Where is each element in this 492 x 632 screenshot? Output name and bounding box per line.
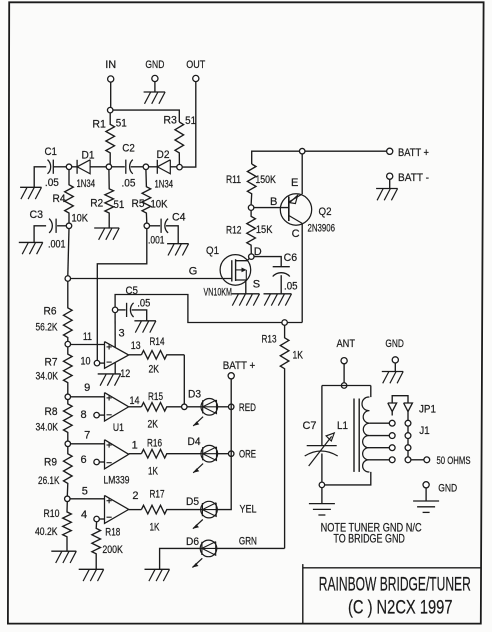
node junction G tap: [65, 276, 71, 282]
value 2N3906 of Q2: [308, 223, 336, 235]
node junction C1-D1: [66, 164, 72, 170]
label BATT+ mid: [223, 360, 256, 372]
label C4: [172, 212, 186, 224]
node junction R4-C3: [66, 223, 72, 229]
wire pin6 input: [99, 461, 104, 463]
label pin 2: [132, 490, 138, 502]
node junction pin9: [65, 394, 71, 400]
svg-text:1K: 1K: [148, 466, 158, 478]
wire junction to C3: [57, 225, 66, 227]
value .05 of C5: [137, 298, 150, 310]
value 10K of R4: [72, 213, 89, 225]
svg-text:IN: IN: [105, 59, 116, 71]
wire C4 to ground: [166, 226, 178, 244]
svg-text:GND: GND: [145, 59, 164, 71]
svg-text:7: 7: [84, 429, 90, 441]
wire tap4: [369, 459, 389, 461]
wire pin3 V+: [114, 313, 116, 348]
capacitor C4: [161, 219, 168, 233]
node junction rail D3: [228, 404, 234, 410]
svg-text:R4: R4: [53, 193, 66, 205]
svg-text:10K: 10K: [72, 213, 89, 225]
svg-text:14: 14: [130, 395, 140, 407]
capacitor C2: [126, 160, 144, 174]
node junction pin8: [94, 412, 100, 418]
diode D1: [72, 160, 107, 174]
svg-text:11: 11: [83, 331, 92, 343]
label BATT+: [398, 147, 429, 159]
svg-text:ORE: ORE: [239, 449, 256, 461]
svg-text:2K: 2K: [148, 419, 159, 431]
terminal BATT+ mid: [228, 373, 234, 379]
svg-text:LM339: LM339: [104, 475, 130, 487]
op-amp U1D: [105, 495, 129, 523]
svg-text:R8: R8: [45, 406, 58, 418]
label pin 10: [81, 356, 91, 368]
label pin 6: [81, 454, 87, 466]
svg-text:D5: D5: [186, 496, 199, 508]
svg-text:.001: .001: [148, 235, 165, 247]
svg-text:R7: R7: [45, 357, 58, 369]
node junction pin11: [65, 341, 71, 347]
wire tap3: [369, 447, 389, 449]
label R12: [226, 225, 242, 237]
node junction D2-R3-OUT: [177, 164, 183, 170]
label R14: [150, 336, 165, 348]
ground bars bottom right: [413, 501, 439, 512]
resistor R14: [141, 351, 184, 360]
svg-text:10K: 10K: [151, 199, 169, 211]
wire D3 to rail: [217, 406, 228, 408]
terminal GND: [152, 75, 158, 81]
wire tuner bottom: [325, 472, 371, 485]
op-amp U1B: [105, 393, 129, 421]
label GND tuner: [385, 338, 404, 350]
label B: [270, 196, 277, 208]
LED D4: [193, 445, 217, 472]
label D2: [157, 149, 170, 161]
core of L1: [354, 399, 359, 472]
label R11: [226, 174, 241, 186]
wire R4 junction down ladder: [68, 228, 69, 276]
svg-text:C6: C6: [284, 252, 298, 264]
wire to 50 ohms: [411, 459, 424, 461]
value VN10KM of Q1: [204, 287, 233, 299]
node junction C5 pin3: [112, 307, 118, 313]
resistor R11: [247, 164, 256, 205]
svg-text:.05: .05: [284, 281, 298, 293]
ground under R2: [94, 228, 119, 240]
pin circle tap4: [389, 457, 395, 463]
svg-text:C5: C5: [126, 285, 139, 297]
node junction pin6: [94, 459, 100, 465]
LED D5: [193, 501, 217, 528]
resistor R5: [142, 169, 151, 223]
wire drain to C6: [254, 257, 281, 267]
note line 1: [321, 520, 422, 534]
svg-text:GND: GND: [385, 338, 404, 350]
wire junction to C4: [149, 225, 160, 227]
label R9: [44, 457, 57, 469]
svg-text:G: G: [189, 266, 198, 278]
wire C3 to ground: [34, 226, 46, 243]
terminal BATT+: [387, 148, 393, 154]
pin circle tap1: [389, 420, 395, 426]
label GND bottom right: [438, 483, 457, 495]
ground left of C1: [20, 187, 41, 199]
label R15: [148, 391, 163, 403]
wire LED rail: [217, 379, 231, 510]
label R8: [45, 406, 58, 418]
svg-text:J1: J1: [419, 425, 430, 437]
svg-text:.001: .001: [48, 239, 66, 251]
node junction C2-D2: [143, 164, 149, 170]
node junction R5-C4: [144, 223, 150, 229]
wire R14 to D3 node: [183, 355, 185, 404]
value .001 of C3: [48, 239, 66, 251]
resistor R4: [65, 169, 74, 223]
wire pin8 input: [99, 414, 104, 416]
label D4: [188, 436, 201, 448]
node junction pin7: [65, 441, 71, 447]
wire pin4 input: [99, 518, 104, 520]
label R18: [105, 527, 120, 539]
pin circle J1-2: [405, 433, 411, 439]
capacitor C6: [273, 267, 290, 294]
label C5: [126, 285, 139, 297]
svg-text:51: 51: [116, 118, 127, 130]
label R7: [45, 357, 58, 369]
terminal 50 OHMS: [424, 457, 430, 463]
ground under C4: [167, 244, 189, 256]
label OUT: [186, 59, 205, 71]
label RED: [239, 402, 256, 414]
resistor R12: [247, 210, 256, 254]
label R13: [262, 334, 277, 346]
node junction pin5: [65, 496, 71, 502]
svg-text:R3: R3: [163, 115, 177, 127]
svg-text:R5: R5: [132, 198, 145, 210]
node junction base: [248, 205, 254, 211]
label R3: [163, 115, 177, 127]
svg-text:C3: C3: [30, 209, 44, 221]
op-amp U1A: [105, 342, 129, 369]
label ORE: [239, 449, 256, 461]
capacitor C1: [48, 160, 67, 174]
ground under C5: [134, 321, 156, 333]
terminal GND tuner: [392, 357, 398, 363]
svg-text:BATT +: BATT +: [398, 147, 429, 159]
wire ground to C1: [34, 167, 46, 188]
label GRN: [239, 536, 257, 548]
svg-text:R9: R9: [44, 457, 57, 469]
resistor R18: [92, 522, 101, 570]
wire D6 right to R13 rail: [216, 547, 284, 549]
svg-text:R15: R15: [148, 391, 163, 403]
svg-text:ANT: ANT: [337, 338, 356, 350]
svg-text:R1: R1: [92, 119, 106, 131]
label R10: [44, 508, 60, 520]
svg-text:JP1: JP1: [419, 404, 436, 416]
svg-text:D2: D2: [157, 149, 170, 161]
resistor R10: [63, 501, 72, 551]
label R5: [132, 198, 145, 210]
svg-text:26.1K: 26.1K: [38, 475, 60, 487]
svg-text:6: 6: [81, 454, 87, 466]
svg-text:5: 5: [82, 486, 88, 498]
wire U1A output: [129, 354, 142, 356]
svg-text:C4: C4: [172, 212, 186, 224]
value 1K of R13: [293, 350, 304, 362]
svg-text:150K: 150K: [255, 174, 276, 186]
wire tap1: [369, 422, 389, 424]
label D5: [186, 496, 199, 508]
svg-text:RED: RED: [239, 402, 256, 414]
svg-text:OUT: OUT: [186, 59, 205, 71]
wire GND down: [154, 82, 156, 92]
node junction tuner bottom: [319, 482, 325, 488]
label R4: [53, 193, 66, 205]
label S: [253, 279, 260, 291]
value 51 of R2: [113, 199, 124, 211]
label pin 9: [84, 382, 90, 394]
label pin 8: [81, 409, 87, 421]
label R1: [92, 119, 106, 131]
svg-text:D3: D3: [188, 389, 201, 401]
wire pin5 input: [70, 498, 105, 500]
label C2: [122, 143, 135, 155]
svg-text:40.2K: 40.2K: [35, 526, 58, 538]
wire tuner junction to ground: [321, 488, 323, 504]
wire base of Q2: [254, 207, 289, 209]
ground under R18: [79, 569, 104, 581]
svg-text:BATT +: BATT +: [223, 360, 256, 372]
svg-text:R10: R10: [44, 508, 60, 520]
label pin 13: [131, 340, 141, 352]
svg-text:TO BRIDGE GND: TO BRIDGE GND: [333, 532, 405, 546]
svg-text:C: C: [292, 228, 300, 240]
node junction emitter top: [299, 148, 305, 154]
resistor R3: [175, 122, 184, 164]
value 1N34 of D2: [155, 179, 174, 191]
wire C4 node to minus rail: [97, 228, 147, 361]
svg-text:R14: R14: [150, 336, 165, 348]
node junction under IN: [107, 107, 113, 113]
wire pin10 input: [100, 362, 105, 364]
resistor R7: [64, 347, 73, 395]
label JP1: [419, 404, 436, 416]
title box: [303, 564, 481, 624]
label C: [292, 228, 300, 240]
svg-text:R18: R18: [105, 527, 120, 539]
svg-text:1K: 1K: [150, 522, 160, 534]
diode D2: [149, 160, 177, 174]
svg-text:50 OHMS: 50 OHMS: [437, 455, 471, 467]
wire GND tuner down: [394, 363, 396, 372]
svg-text:15K: 15K: [256, 224, 273, 236]
pin circle J1-1: [405, 420, 411, 426]
svg-text:.05: .05: [122, 177, 136, 189]
wire BATT- down: [389, 179, 391, 188]
svg-text:E: E: [291, 177, 298, 189]
jumper JP1: [388, 396, 413, 416]
resistor R9: [64, 446, 73, 496]
svg-text:1K: 1K: [293, 350, 304, 362]
value 51 of R1: [116, 118, 127, 130]
svg-text:3: 3: [119, 328, 125, 340]
pin circle tap3: [389, 445, 395, 451]
resistor R17: [141, 505, 201, 514]
svg-text:2N3906: 2N3906: [308, 223, 336, 235]
value 51 of R3: [185, 115, 196, 127]
svg-text:GRN: GRN: [239, 536, 257, 548]
resistor R6: [64, 281, 73, 341]
wire OUT down: [183, 82, 196, 168]
wire IN down: [110, 82, 112, 107]
value 40.2K of R10: [35, 526, 58, 538]
transistor Q2: [280, 194, 311, 225]
wire pin7 input: [70, 443, 104, 445]
svg-text:34.0K: 34.0K: [36, 422, 59, 434]
terminal IN: [108, 76, 114, 82]
value 26.1K of R9: [38, 475, 60, 487]
label Q1: [206, 245, 219, 257]
wire tap2: [369, 435, 389, 437]
value 2K of R15: [148, 419, 159, 431]
resistor R2: [105, 169, 114, 227]
wire U1B output: [129, 406, 142, 408]
label pin 14: [130, 395, 140, 407]
svg-text:R13: R13: [262, 334, 277, 346]
pin circle J1-4: [405, 457, 411, 463]
svg-text:1N34: 1N34: [155, 179, 174, 191]
svg-text:C1: C1: [45, 146, 58, 158]
label J1: [419, 425, 430, 437]
svg-text:C7: C7: [303, 420, 317, 432]
value 1K of R16: [148, 466, 158, 478]
label Q2: [319, 206, 332, 218]
value 2K of R14: [149, 364, 160, 376]
svg-text:R11: R11: [226, 174, 241, 186]
node junction rail D4: [228, 451, 234, 457]
label ANT: [337, 338, 356, 350]
label IN: [105, 59, 116, 71]
resistor R8: [64, 399, 73, 441]
svg-text:VN10KM: VN10KM: [204, 287, 233, 299]
label C6: [284, 252, 298, 264]
wire gate of Q1: [70, 278, 231, 280]
svg-text:D4: D4: [188, 436, 201, 448]
svg-text:BATT -: BATT -: [398, 172, 429, 184]
svg-text:.05: .05: [137, 298, 150, 310]
ground under R10: [51, 551, 76, 563]
wire GND bottom right down: [425, 488, 427, 501]
label D1: [82, 149, 95, 161]
label D6: [186, 536, 199, 548]
terminal GND bottom right: [423, 482, 429, 488]
wire to D3: [187, 406, 202, 408]
value 1K of R17: [150, 522, 160, 534]
node junction R15-D3: [182, 404, 188, 410]
value .001 of C4: [148, 235, 165, 247]
svg-text:U1: U1: [113, 422, 124, 434]
wire collector down: [301, 223, 303, 322]
svg-text:56.2K: 56.2K: [36, 322, 59, 334]
label C3: [30, 209, 44, 221]
wire BATT+ top: [252, 151, 387, 164]
label U1: [113, 422, 124, 434]
ground tuner left: [309, 504, 335, 515]
label YEL: [240, 504, 257, 516]
svg-text:9: 9: [84, 382, 90, 394]
ground under C6: [264, 294, 292, 306]
wire junction to R3 top: [113, 110, 180, 122]
label pin 3: [119, 328, 125, 340]
resistor R13: [280, 325, 289, 548]
svg-text:4: 4: [81, 509, 87, 521]
terminal BATT-: [387, 173, 393, 179]
label G: [189, 266, 198, 278]
value 34.0K of R8: [36, 422, 59, 434]
resistor R15: [141, 403, 181, 412]
capacitor C7 variable: [305, 433, 338, 466]
wire pin9 input: [70, 396, 104, 398]
terminal OUT: [193, 75, 199, 81]
label R16: [147, 438, 162, 450]
svg-text:S: S: [253, 279, 260, 291]
label E: [291, 177, 298, 189]
value 200K of R18: [102, 544, 123, 556]
wire V+ run: [115, 295, 302, 323]
wire U1C output: [129, 453, 142, 455]
svg-text:1: 1: [132, 440, 138, 452]
svg-text:.05: .05: [45, 177, 59, 189]
ground under tuner GND: [382, 372, 403, 384]
title text: [319, 575, 471, 596]
svg-text:R16: R16: [147, 438, 162, 450]
value 10K of R5: [151, 199, 169, 211]
wire ANT down: [343, 364, 345, 383]
ground under source: [232, 294, 260, 306]
resistor R16: [141, 449, 201, 458]
wire D6 left to ground: [160, 548, 201, 569]
node junction ANT: [341, 383, 347, 389]
svg-text:D6: D6: [186, 536, 199, 548]
svg-text:200K: 200K: [102, 544, 123, 556]
wire pin12 V-: [114, 362, 116, 374]
svg-text:R2: R2: [90, 198, 103, 210]
copyright text: [348, 598, 453, 619]
label C1: [45, 146, 58, 158]
value 15K of R12: [256, 224, 273, 236]
terminal ANT: [341, 358, 347, 364]
wire D4 to rail: [217, 453, 228, 455]
svg-text:RAINBOW BRIDGE/TUNER: RAINBOW BRIDGE/TUNER: [319, 575, 471, 596]
label BATT-: [398, 172, 429, 184]
svg-text:51: 51: [113, 199, 124, 211]
label R6: [44, 306, 57, 318]
ground under BATT-: [376, 189, 398, 201]
label D: [254, 246, 262, 258]
svg-text:R12: R12: [226, 225, 242, 237]
svg-text:L1: L1: [337, 420, 348, 432]
svg-text:C2: C2: [122, 143, 135, 155]
value 34.0K of R7: [36, 371, 59, 383]
wire C7 down: [321, 454, 323, 483]
label pin 7: [84, 429, 90, 441]
svg-text:D1: D1: [82, 149, 95, 161]
wire emitter up: [301, 154, 303, 194]
